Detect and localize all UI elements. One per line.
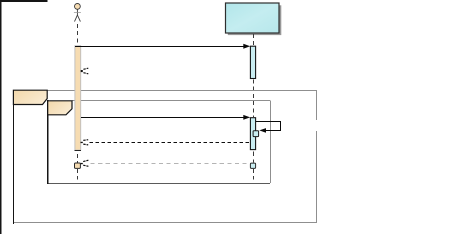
outer fragment pentagon label [13, 90, 47, 104]
inner fragment pentagon label [48, 101, 72, 115]
return 1 arrowhead (dashed open, at actor bar) [81, 68, 89, 74]
actor lifeline (dashed) [77, 24, 79, 180]
outer combined fragment box [13, 90, 317, 224]
small cyan execution box on service lifeline [250, 163, 255, 168]
nested activation (self call) [253, 131, 259, 137]
self message loop on service [256, 122, 281, 133]
return 2: service -> actor (dashed) [81, 140, 251, 145]
message 2: actor -> service (solid) [81, 115, 250, 120]
actor (stick figure) [74, 4, 81, 22]
frame corner (diagram frame, top-left) [0, 0, 48, 234]
gray dashed message: service -> actor [81, 160, 250, 166]
service activation bar 2 [250, 118, 255, 150]
object box (service) [226, 3, 280, 33]
service activation bar 1 [250, 46, 255, 78]
actor activation bar [75, 46, 82, 151]
inner combined fragment box [48, 100, 271, 184]
small tan execution box on actor lifeline [75, 163, 81, 168]
message 1: actor -> service (solid) [75, 44, 250, 49]
service lifeline (dashed) [253, 34, 255, 180]
object box shadow [228, 5, 281, 35]
